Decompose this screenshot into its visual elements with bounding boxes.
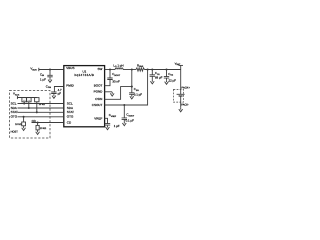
svg-text:10 kΩ: 10 kΩ <box>40 127 47 130</box>
svg-text:CSOUT: CSOUT <box>92 103 103 107</box>
svg-text:LO 1 µH: LO 1 µH <box>113 63 123 68</box>
ground <box>36 130 40 134</box>
terminal tick VBAT <box>178 64 183 66</box>
node B junction <box>147 68 149 70</box>
svg-text:VREF: VREF <box>94 116 102 120</box>
svg-text:VBUS: VBUS <box>66 66 74 70</box>
svg-text:OTG: OTG <box>11 115 18 119</box>
svg-text:CSOUT: CSOUT <box>126 113 134 118</box>
HOST dashed box <box>10 91 51 139</box>
ground <box>150 80 154 84</box>
svg-text:CSN: CSN <box>134 87 139 92</box>
svg-text:CO2: CO2 <box>168 72 174 77</box>
wire L to node A <box>123 69 136 71</box>
resistor R3 10k <box>36 97 38 99</box>
svg-text:1 µF: 1 µF <box>40 77 46 81</box>
ground <box>48 78 52 82</box>
wire VAUX rail <box>17 97 36 99</box>
ground <box>22 126 26 130</box>
svg-text:PACK+: PACK+ <box>182 86 191 89</box>
wire VREF <box>105 118 108 123</box>
svg-text:10k: 10k <box>28 99 31 102</box>
svg-text:CD: CD <box>67 120 72 124</box>
svg-text:0.1 µF: 0.1 µF <box>126 119 134 123</box>
node A sense drop <box>131 70 133 87</box>
svg-text:0.1 µF: 0.1 µF <box>134 92 142 96</box>
ground <box>110 92 114 96</box>
svg-text:RSNS: RSNS <box>137 63 144 68</box>
svg-text:SW: SW <box>97 67 102 71</box>
svg-text:68 µF: 68 µF <box>155 76 163 80</box>
resistor R5 10k CD pulldown <box>37 121 39 123</box>
wire <box>49 77 51 78</box>
svg-text:µF: µF <box>58 92 62 96</box>
wire CIN drop <box>49 70 51 76</box>
svg-text:PMID: PMID <box>66 83 74 87</box>
battery pack dashed box <box>174 89 184 102</box>
junction CO1 <box>151 68 153 70</box>
svg-text:CBOOT: CBOOT <box>112 72 121 77</box>
svg-text:10k: 10k <box>23 99 26 102</box>
wire SW <box>105 69 116 71</box>
wire CSOUT <box>105 70 148 106</box>
svg-text:STAT: STAT <box>11 110 18 114</box>
svg-text:CPM: CPM <box>46 84 51 89</box>
ground <box>123 119 125 121</box>
svg-text:PACK-: PACK- <box>181 103 189 106</box>
wire node B to VBAT <box>144 69 180 71</box>
svg-text:STAT: STAT <box>67 110 74 114</box>
wire CSIN <box>105 87 132 100</box>
svg-text:SCL: SCL <box>67 101 73 105</box>
ground <box>165 80 169 84</box>
svg-text:BOOT: BOOT <box>94 84 103 88</box>
wire VBUS to IC <box>39 69 64 71</box>
svg-text:VBUS: VBUS <box>30 67 37 72</box>
svg-text:VAUX: VAUX <box>13 92 20 97</box>
capacitor CPM <box>51 92 56 94</box>
resistor R2 10k <box>28 97 30 99</box>
svg-text:PGND: PGND <box>94 90 104 94</box>
ground <box>179 108 183 112</box>
svg-text:HOST: HOST <box>11 130 19 133</box>
capacitor CO2 <box>166 70 168 77</box>
svg-text:OTG: OTG <box>67 115 74 119</box>
ground <box>106 126 110 130</box>
node A junction <box>131 68 133 70</box>
svg-text:33 nF: 33 nF <box>112 80 120 84</box>
capacitor CBOOT <box>109 70 111 79</box>
terminal tick VBUS <box>38 68 40 71</box>
wire PMID <box>54 87 63 93</box>
junction boot <box>109 68 111 70</box>
wire VBAT down to pack <box>180 65 182 94</box>
battery cell <box>177 93 185 95</box>
IC U1 bq24733A/B body <box>64 66 105 127</box>
junction CO2 <box>165 68 167 70</box>
svg-text:1 µF: 1 µF <box>114 124 120 128</box>
capacitor CSN <box>131 87 133 93</box>
svg-text:CVREF: CVREF <box>109 113 117 118</box>
capacitor CVREF <box>105 124 110 126</box>
resistor R4 10k OTG pulldown <box>23 116 25 118</box>
svg-text:10 kΩ: 10 kΩ <box>15 123 22 126</box>
wire PGND <box>105 91 113 93</box>
ground <box>53 93 55 96</box>
svg-text:SCL: SCL <box>11 101 17 105</box>
junction CIN <box>49 68 51 70</box>
svg-text:22 µF: 22 µF <box>169 79 177 83</box>
wire CD <box>32 122 64 124</box>
svg-text:bq24733A/B: bq24733A/B <box>75 73 95 77</box>
capacitor CIN <box>47 75 52 77</box>
capacitor CSOUT <box>123 105 125 118</box>
ground <box>131 93 133 96</box>
junction CSOUT cap <box>123 104 125 106</box>
resistor R1 10k <box>23 97 25 99</box>
capacitor CO1 <box>151 70 153 75</box>
svg-text:CSIN: CSIN <box>95 97 102 101</box>
